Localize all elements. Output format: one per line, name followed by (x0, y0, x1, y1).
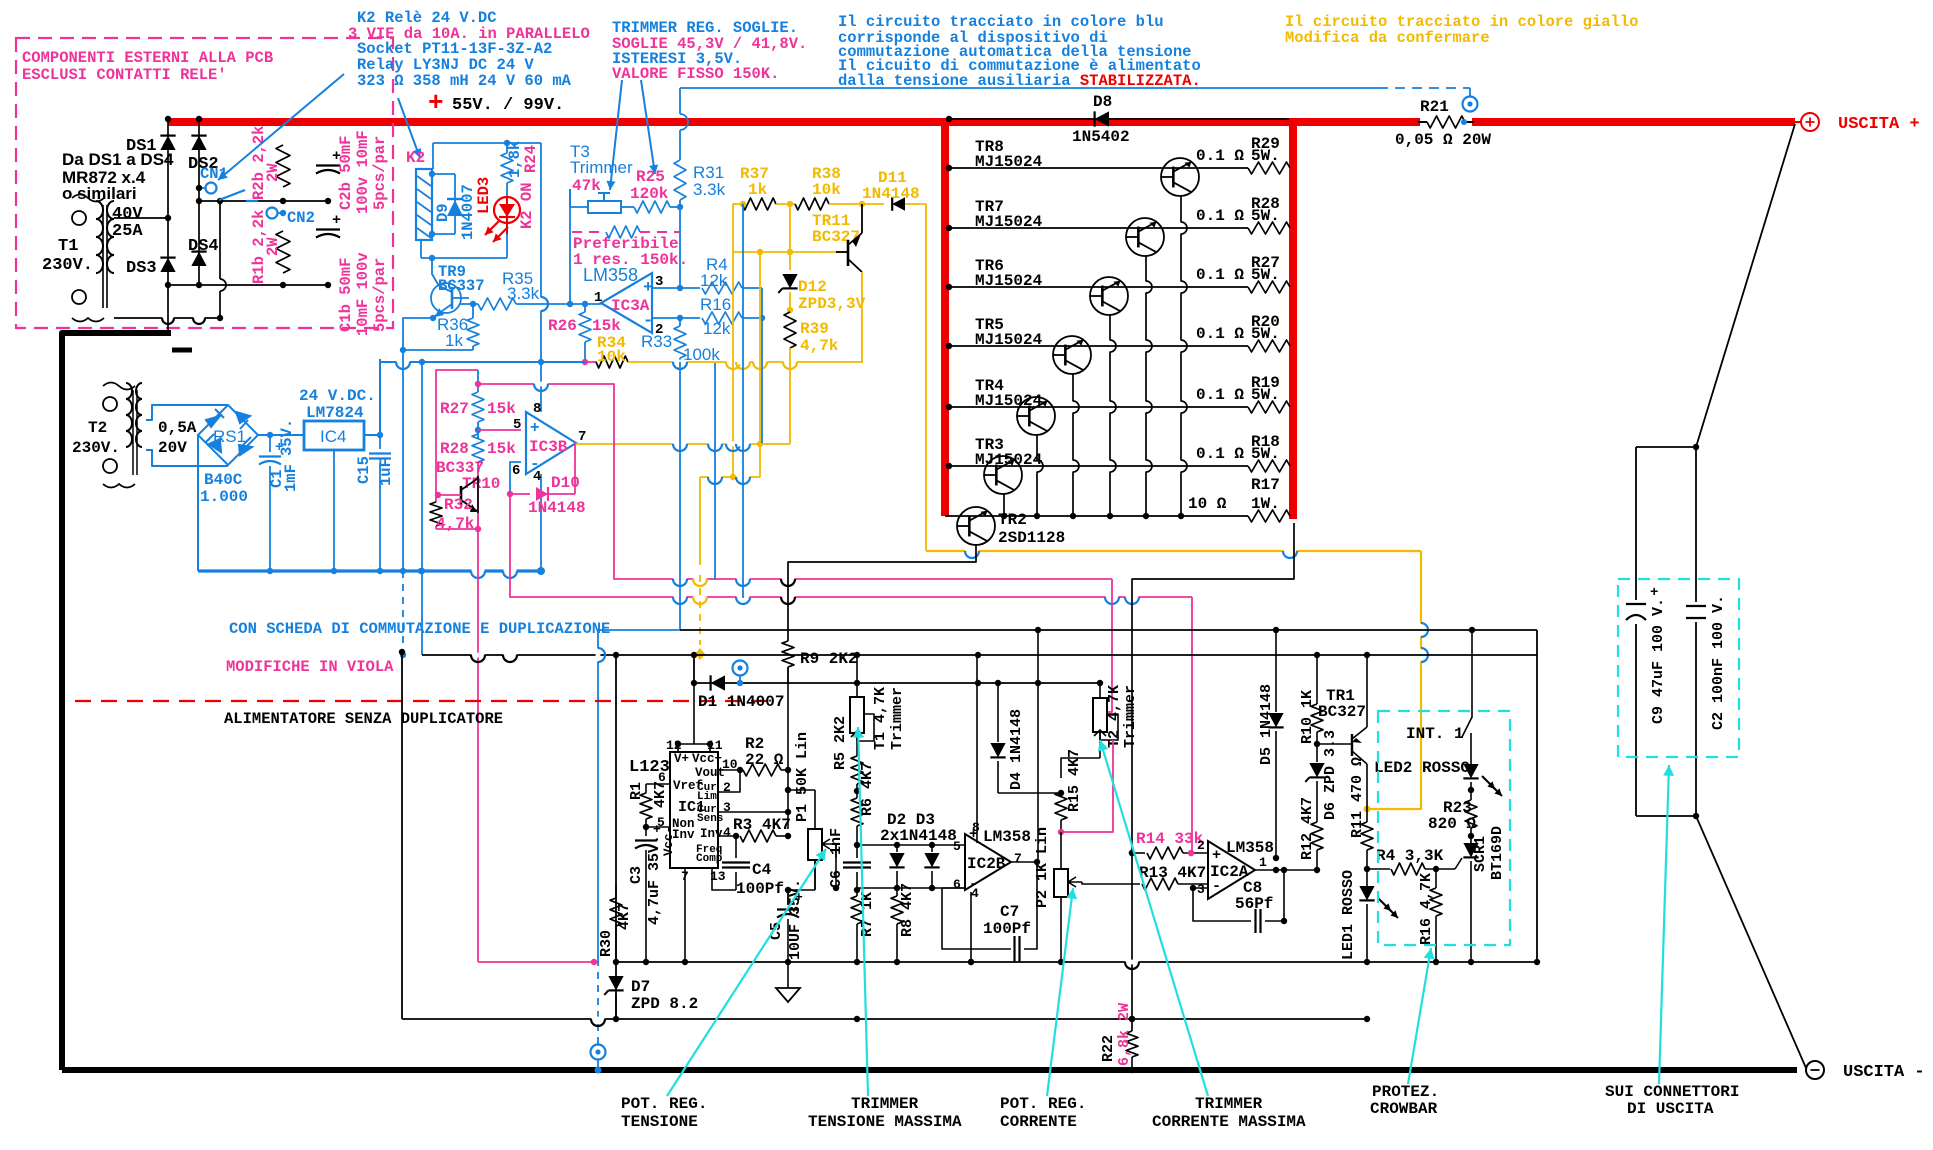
svg-text:BC327: BC327 (812, 228, 860, 246)
wire D10 to IC3B out (575, 443, 576, 494)
wire relay bottom pin to D9 (432, 233, 455, 235)
svg-text:R10 1K: R10 1K (1299, 690, 1316, 744)
svg-text:D1 1N4007: D1 1N4007 (698, 693, 784, 711)
svg-text:R17: R17 (1251, 476, 1280, 494)
diode D4 1N4148 (997, 683, 999, 742)
cyan dashed box output caps (1618, 579, 1739, 757)
resistor R25 120k (634, 201, 670, 213)
arrow to R25 (641, 80, 655, 174)
svg-text:8: 8 (972, 820, 980, 835)
svg-text:0.1 Ω: 0.1 Ω (1196, 386, 1244, 404)
diode D10 1N4148 (510, 493, 530, 495)
resistor R22 6,8k 2W (1126, 1031, 1138, 1057)
svg-text:5: 5 (953, 839, 961, 854)
svg-text:V+: V+ (674, 752, 689, 766)
svg-text:R11 470 Ω: R11 470 Ω (1349, 757, 1366, 838)
wire D2/D3 lower join (857, 887, 965, 889)
wire +55V red output bus (top) (168, 118, 1795, 126)
svg-text:LM358: LM358 (1226, 839, 1274, 857)
svg-text:D7: D7 (631, 978, 650, 996)
transformer T1 (72, 211, 86, 225)
svg-text:MJ15024: MJ15024 (975, 331, 1043, 349)
wire emitter column TR6 (1109, 315, 1111, 516)
svg-text:C2b 50mF: C2b 50mF (337, 136, 355, 210)
wire P1 bottom to gnd rail (814, 860, 816, 890)
wire IC2B out (1011, 861, 1037, 863)
wire yellow link to dashed drop (700, 476, 760, 478)
svg-text:MJ15024: MJ15024 (975, 392, 1043, 410)
svg-text:K2: K2 (406, 149, 425, 167)
wire blue dashed to R21 (1378, 87, 1470, 89)
cyan arrow SUI CONNETTORI (1659, 765, 1669, 1084)
resistor R29 0.1ohm 5W (1248, 162, 1290, 174)
svg-text:35V.: 35V. (278, 419, 296, 456)
wire DS2/DS4 column (198, 119, 200, 285)
svg-text:1k: 1k (445, 331, 463, 350)
svg-text:6,8k 2W: 6,8k 2W (1116, 1003, 1133, 1066)
wire base row TR7 (949, 227, 1248, 229)
svg-text:R9 2K2: R9 2K2 (800, 650, 858, 668)
resistor R10 1K (1316, 655, 1318, 704)
svg-text:3.3k: 3.3k (693, 180, 726, 199)
svg-text:RS1: RS1 (213, 427, 246, 446)
wire vertical x=977 pin8 supply (976, 655, 978, 843)
svg-text:COMPONENTI ESTERNI ALLA PCB: COMPONENTI ESTERNI ALLA PCB (22, 49, 273, 67)
svg-text:15k: 15k (487, 440, 516, 458)
svg-text:15k: 15k (487, 400, 516, 418)
wire cap box right (1695, 447, 1697, 816)
svg-text:7: 7 (1014, 851, 1022, 866)
wire P1 top from Vout node (788, 789, 815, 791)
node R6 bottom to IC2B+ (854, 842, 860, 848)
transistor TR4 MJ15024 (1017, 397, 1055, 435)
resistor R33 100k (679, 318, 681, 326)
svg-text:ZPD 8.2: ZPD 8.2 (631, 995, 698, 1013)
svg-text:2SD1128: 2SD1128 (998, 529, 1065, 547)
resistor R20 0.1ohm 5W (1248, 340, 1290, 352)
wire D5 to IC2A node (1275, 858, 1277, 870)
svg-text:12k: 12k (700, 271, 728, 290)
wire TR9 base row (460, 303, 478, 305)
terminal USCITA+ (1795, 121, 1801, 123)
resistor R19 0.1ohm 5W (1248, 401, 1290, 413)
wire IC4 out (364, 434, 380, 436)
resistor R36 1k (472, 304, 474, 318)
transistor TR5 MJ15024 (1053, 336, 1091, 374)
diode DS4 (191, 252, 206, 266)
svg-text:D12: D12 (798, 278, 827, 296)
transistor TR6 MJ15024 (1090, 277, 1128, 315)
svg-text:5W.: 5W. (1251, 147, 1280, 165)
resistor R1 4K7 (646, 783, 670, 785)
wire IC3A out (570, 303, 601, 305)
capacitor C2 100nF 100V (1686, 602, 1706, 622)
capacitor C2b (316, 164, 340, 166)
op-amp IC3A LM358 (601, 273, 652, 333)
capacitor C15 1uF (379, 435, 381, 449)
potentiometer P2 1K Lin (1060, 832, 1062, 869)
svg-text:0,05 Ω 20W: 0,05 Ω 20W (1395, 131, 1491, 149)
wire base row TR3 (949, 465, 1248, 467)
bridge rectifier RS1 (198, 405, 258, 465)
capacitor C5 10UF 35V (783, 828, 788, 830)
svg-text:dalla tensione ausiliaria STAB: dalla tensione ausiliaria STABILIZZATA. (838, 72, 1201, 90)
svg-text:Inv: Inv (700, 827, 723, 841)
svg-text:100Pf: 100Pf (983, 920, 1031, 938)
transformer T2 (103, 397, 117, 411)
svg-text:IC3B: IC3B (529, 438, 568, 456)
svg-text:PROTEZ.: PROTEZ. (1372, 1083, 1439, 1101)
wire ground rail y=962 (616, 961, 1537, 963)
wire TR9 emitter to column (403, 318, 433, 350)
node R15 bottom magenta (1058, 829, 1064, 835)
svg-text:C1b 50mF: C1b 50mF (337, 258, 355, 332)
svg-text:DS3: DS3 (126, 259, 157, 278)
resistor R16 12k (680, 317, 700, 319)
wire R4/R16 right join (761, 288, 763, 318)
wire relay +24V column x=541 to IC3B pin8 (540, 143, 542, 412)
wire TR11 collector (861, 204, 863, 233)
wire thick black minus from bridge (62, 333, 171, 1070)
svg-text:Vcc-: Vcc- (662, 826, 676, 856)
svg-text:BT169D: BT169D (1489, 826, 1506, 880)
svg-text:4,7k: 4,7k (436, 515, 475, 533)
svg-text:5W.: 5W. (1251, 207, 1280, 225)
svg-text:1W.: 1W. (1251, 495, 1280, 513)
svg-text:LM358: LM358 (583, 265, 638, 285)
svg-text:IC4: IC4 (320, 427, 346, 446)
IC1 L123 box (670, 752, 718, 868)
svg-text:TR2: TR2 (998, 511, 1027, 529)
svg-text:20V: 20V (158, 439, 187, 457)
resistor R4 3,3K (crowbar) (1367, 868, 1390, 870)
svg-text:CROWBAR: CROWBAR (1370, 1100, 1438, 1118)
svg-text:MJ15024: MJ15024 (975, 272, 1043, 290)
switch blade (219, 190, 245, 200)
svg-text:LM7824: LM7824 (306, 404, 364, 422)
wire 24V out riser (379, 359, 381, 435)
svg-text:Trimmer: Trimmer (570, 158, 633, 177)
wire cap box bottom (1636, 815, 1696, 817)
wire blue column 715 (714, 363, 716, 580)
wire IC3A -in (652, 317, 680, 319)
svg-text:10 Ω: 10 Ω (1188, 495, 1227, 513)
diode D1 1N4007 (693, 655, 695, 683)
resistor R12 4K7 (1311, 822, 1323, 850)
svg-text:22 Ω: 22 Ω (745, 751, 784, 769)
led LED1 ROSSO (1364, 866, 1370, 872)
svg-text:DI USCITA: DI USCITA (1627, 1100, 1714, 1118)
cyan arrow TRIMMER TENSIONE (858, 727, 868, 1096)
resistor R17 10ohm 1W (1248, 510, 1290, 522)
wire relay supply rail y=143 (433, 142, 541, 144)
resistor R31 3.3k (679, 88, 681, 114)
svg-text:R12 4K7: R12 4K7 (1299, 797, 1316, 860)
svg-text:D9: D9 (434, 203, 452, 222)
diode DS1 (160, 136, 175, 150)
svg-text:C7: C7 (1000, 903, 1019, 921)
diode D2 (857, 844, 897, 846)
wire TR11 emitter down (861, 272, 863, 362)
svg-text:IC2B: IC2B (967, 855, 1006, 873)
svg-text:0.1 Ω: 0.1 Ω (1196, 147, 1244, 165)
led LED2 ROSSO (1470, 733, 1472, 766)
wire IC2B pin4 to ground (970, 892, 972, 962)
svg-text:R39: R39 (800, 320, 829, 338)
wire black TR2 emitter to R9 (788, 544, 976, 641)
dashed line with resistor (alt 150k) (572, 231, 600, 233)
svg-text:R26: R26 (548, 317, 577, 335)
svg-text:INT. 1: INT. 1 (1406, 725, 1464, 743)
svg-text:R32: R32 (444, 496, 473, 514)
ground symbol (787, 962, 789, 988)
wire blue/blue column 762 (761, 318, 763, 443)
led LED3 arrows (485, 220, 500, 235)
svg-text:47k: 47k (572, 177, 601, 195)
wire top rail y=655 (422, 654, 1537, 656)
svg-text:R33: R33 (641, 332, 672, 351)
svg-text:1mF: 1mF (282, 464, 300, 492)
wire second rail y=683 (694, 682, 1100, 684)
svg-text:R5 2K2: R5 2K2 (832, 716, 849, 770)
svg-text:2: 2 (1197, 838, 1205, 853)
svg-text:T2 4,7K: T2 4,7K (1106, 685, 1123, 748)
svg-text:MJ15024: MJ15024 (975, 153, 1043, 171)
svg-text:4K7: 4K7 (762, 816, 791, 834)
svg-text:2W: 2W (264, 237, 282, 256)
svg-text:R16 4,7K: R16 4,7K (1418, 873, 1435, 945)
svg-text:5W.: 5W. (1251, 325, 1280, 343)
resistor R15 4K7 (1060, 778, 1062, 785)
wire IC4 gnd (333, 450, 335, 571)
resistor R8 4K7 (896, 888, 898, 896)
diode DS3 (160, 258, 175, 272)
terminal blue bottom left (591, 1045, 606, 1060)
diode D9 1N4007 (454, 174, 456, 234)
svg-text:R7 1K: R7 1K (859, 892, 876, 937)
svg-text:5pcs/par: 5pcs/par (371, 136, 389, 210)
svg-text:Vout: Vout (695, 766, 725, 780)
wire rail link R32 (477, 476, 479, 513)
svg-text:ESCLUSI CONTATTI RELE': ESCLUSI CONTATTI RELE' (22, 66, 227, 84)
wire base row TR5 (949, 345, 1248, 347)
svg-text:TENSIONE: TENSIONE (621, 1113, 698, 1131)
wire R36 bottom row y=350 (403, 349, 473, 351)
wire relay top pin to D9 (432, 173, 455, 175)
svg-text:4: 4 (723, 825, 731, 840)
svg-text:o similari: o similari (62, 184, 137, 203)
svg-text:8: 8 (533, 401, 541, 417)
svg-text:+: + (428, 88, 444, 118)
resistor R39 4,7k (784, 312, 796, 348)
resistor R2 22ohm (718, 769, 740, 771)
svg-text:2x1N4148: 2x1N4148 (880, 827, 957, 845)
wire R32 bottom to emitter (436, 513, 478, 529)
svg-text:R22: R22 (1100, 1035, 1117, 1062)
wire base row TR8 (949, 167, 1248, 169)
wire D4 to R15 top (998, 792, 1061, 794)
svg-text:1N4148: 1N4148 (528, 499, 586, 517)
resistor R14 33k (1132, 852, 1145, 854)
svg-text:R3: R3 (733, 816, 752, 834)
svg-text:0,5A: 0,5A (158, 419, 197, 437)
resistor R21 0,05ohm 20W (1420, 114, 1472, 130)
svg-text:Trimmer: Trimmer (1122, 685, 1139, 748)
wire yellow dashed drop (699, 575, 701, 645)
svg-text:Sens: Sens (697, 813, 723, 825)
resistor R26 15k (582, 301, 588, 307)
svg-text:4K7: 4K7 (616, 903, 633, 930)
wire right rail x=1537 (1536, 630, 1538, 962)
resistor R28 0.1ohm 5W (1248, 222, 1290, 234)
svg-text:10k: 10k (597, 348, 626, 366)
relay K2 coil box (416, 169, 432, 240)
diode D11 1N4148 (892, 197, 905, 211)
svg-text:CON SCHEDA DI COMMUTAZIONE E D: CON SCHEDA DI COMMUTAZIONE E DUPLICAZION… (229, 620, 610, 638)
wire T2 to RS1 (146, 405, 228, 420)
wire yellow junction drop x=790 (789, 204, 791, 252)
wire mid rail y=630 (680, 629, 1537, 631)
arrow to T3 trimmer (610, 80, 622, 190)
svg-text:R1: R1 (628, 782, 645, 800)
svg-text:R4 3,3K: R4 3,3K (1376, 847, 1444, 865)
wire blue vertical 422 (421, 362, 423, 655)
svg-text:3.3k: 3.3k (507, 284, 540, 303)
connector CN2 (267, 208, 278, 219)
wire 24V rail thick blue return (198, 569, 541, 572)
wire R27/R28 tap to IC3B + (478, 429, 521, 431)
svg-text:R15 4K7: R15 4K7 (1066, 749, 1083, 812)
svg-text:R21: R21 (1420, 98, 1449, 116)
wire blue main column 680 down (679, 362, 681, 630)
wire switch column x=220 (219, 201, 221, 279)
wire magenta vertical 614 (478, 384, 1112, 579)
svg-text:100v 10mF: 100v 10mF (354, 130, 372, 214)
svg-text:-: - (643, 312, 653, 331)
terminal USCITA- (1806, 1061, 1824, 1079)
svg-text:1: 1 (1259, 855, 1267, 870)
capacitor C7 100Pf (965, 888, 1005, 949)
svg-text:T2: T2 (88, 419, 107, 437)
resistor R16 4,7K (1435, 869, 1437, 888)
svg-text:LED2 ROSSO: LED2 ROSSO (1374, 759, 1470, 777)
svg-text:C15: C15 (355, 456, 373, 484)
svg-text:5pcs/par: 5pcs/par (371, 258, 389, 332)
resistor R27 0.1ohm 5W (1248, 281, 1290, 293)
svg-text:SUI CONNETTORI: SUI CONNETTORI (1605, 1083, 1739, 1101)
svg-text:R8 4K7: R8 4K7 (899, 883, 916, 937)
wire contact row y=201 (199, 200, 328, 202)
svg-text:6: 6 (953, 877, 961, 892)
wire base row TR4 (949, 406, 1248, 408)
wire yellow column 733 down (732, 252, 734, 477)
diode D3 (929, 842, 935, 848)
diode D8 line (949, 118, 1289, 120)
svg-text:MJ15024: MJ15024 (975, 451, 1043, 469)
wire x=977 to IC2B (976, 838, 978, 845)
resistor R13 4K7 (1142, 878, 1178, 890)
wire thick black bottom USCITA- bus (62, 1067, 1797, 1073)
svg-text:D8: D8 (1093, 93, 1112, 111)
svg-text:R16: R16 (700, 295, 731, 314)
wire magenta top link R27 (436, 370, 478, 495)
wire magenta R32 node down to 962 (477, 530, 479, 962)
svg-text:R30: R30 (598, 930, 615, 957)
svg-text:Trimmer: Trimmer (889, 687, 906, 750)
svg-text:MODIFICHE IN VIOLA: MODIFICHE IN VIOLA (226, 658, 394, 676)
capacitor C9 47uF 100V (1626, 600, 1646, 624)
svg-text:15k: 15k (592, 317, 621, 335)
wire yellow TR11 base row (733, 251, 848, 253)
wire T3 to R25 (621, 206, 634, 208)
wire R1 to pin5 (646, 826, 670, 828)
led LED3 red (506, 196, 508, 234)
wire IC1 pin7 to ground (684, 868, 686, 962)
transistor TR8 MJ15024 (1161, 158, 1199, 196)
svg-text:10mF 100v: 10mF 100v (354, 252, 372, 336)
svg-text:R2b 2,2k: R2b 2,2k (250, 126, 268, 200)
svg-text:230V.: 230V. (42, 256, 93, 275)
svg-text:1N5402: 1N5402 (1072, 128, 1130, 146)
transistor TR2 2SD1128 (957, 507, 995, 545)
svg-text:TR10: TR10 (462, 475, 500, 493)
svg-text:Comp: Comp (696, 853, 723, 865)
svg-text:K2 ON: K2 ON (518, 182, 536, 229)
wire magenta vertical 510 (510, 494, 1192, 597)
wire relay bottom to row (420, 240, 422, 258)
svg-text:R24: R24 (522, 145, 540, 173)
cyan arrow PROTEZ CROWBAR (1408, 948, 1431, 1084)
cyan dashed crowbar box (1378, 711, 1510, 945)
svg-text:R14 33k: R14 33k (1136, 830, 1204, 848)
svg-text:LED1 ROSSO: LED1 ROSSO (1340, 870, 1357, 960)
svg-text:120k: 120k (630, 185, 669, 203)
wire IC2B minus feed (942, 887, 965, 889)
svg-text:R27: R27 (440, 400, 469, 418)
svg-text:Modifica da confermare: Modifica da confermare (1285, 29, 1490, 47)
trimmer T2 4,7K (1099, 683, 1101, 698)
svg-text:D4 1N4148: D4 1N4148 (1008, 709, 1025, 790)
resistor R9 2K2 (782, 641, 794, 667)
svg-text:P1 50K Lin: P1 50K Lin (794, 732, 811, 822)
svg-text:55V. / 99V.: 55V. / 99V. (452, 96, 564, 115)
wire yellow D11 right down (905, 204, 926, 551)
wire cap box top (1636, 446, 1696, 448)
svg-text:ALIMENTATORE SENZA DUPLICATORE: ALIMENTATORE SENZA DUPLICATORE (224, 710, 503, 728)
svg-text:0.1 Ω: 0.1 Ω (1196, 325, 1244, 343)
wire yellow drop to crowbar (1367, 551, 1421, 809)
svg-text:1uF: 1uF (377, 458, 395, 486)
svg-text:C3: C3 (628, 866, 645, 884)
svg-text:Da DS1 a DS4: Da DS1 a DS4 (62, 150, 174, 169)
wire TR10 collector (477, 476, 478, 479)
wire magenta R15 node (1061, 740, 1113, 832)
svg-text:+: + (332, 212, 341, 229)
svg-text:4,7uF 35V.: 4,7uF 35V. (646, 835, 663, 925)
wire blue column 743 top (740, 201, 746, 207)
dashed box COMPONENTI ESTERNI (16, 38, 393, 328)
capacitor C8 56Pf (1193, 888, 1251, 921)
svg-text:Vcc+: Vcc+ (692, 752, 722, 766)
wire yellow from R34 to TR11 emitter (628, 361, 863, 363)
svg-text:56Pf: 56Pf (1235, 895, 1273, 913)
wire T3 left (570, 189, 588, 207)
svg-text:USCITA +: USCITA + (1838, 115, 1920, 134)
wire LED3 bottom row y=258 (506, 234, 508, 258)
arrow to relay K2 (398, 98, 420, 158)
svg-text:C6: C6 (828, 870, 845, 888)
svg-text:DS4: DS4 (188, 237, 219, 256)
